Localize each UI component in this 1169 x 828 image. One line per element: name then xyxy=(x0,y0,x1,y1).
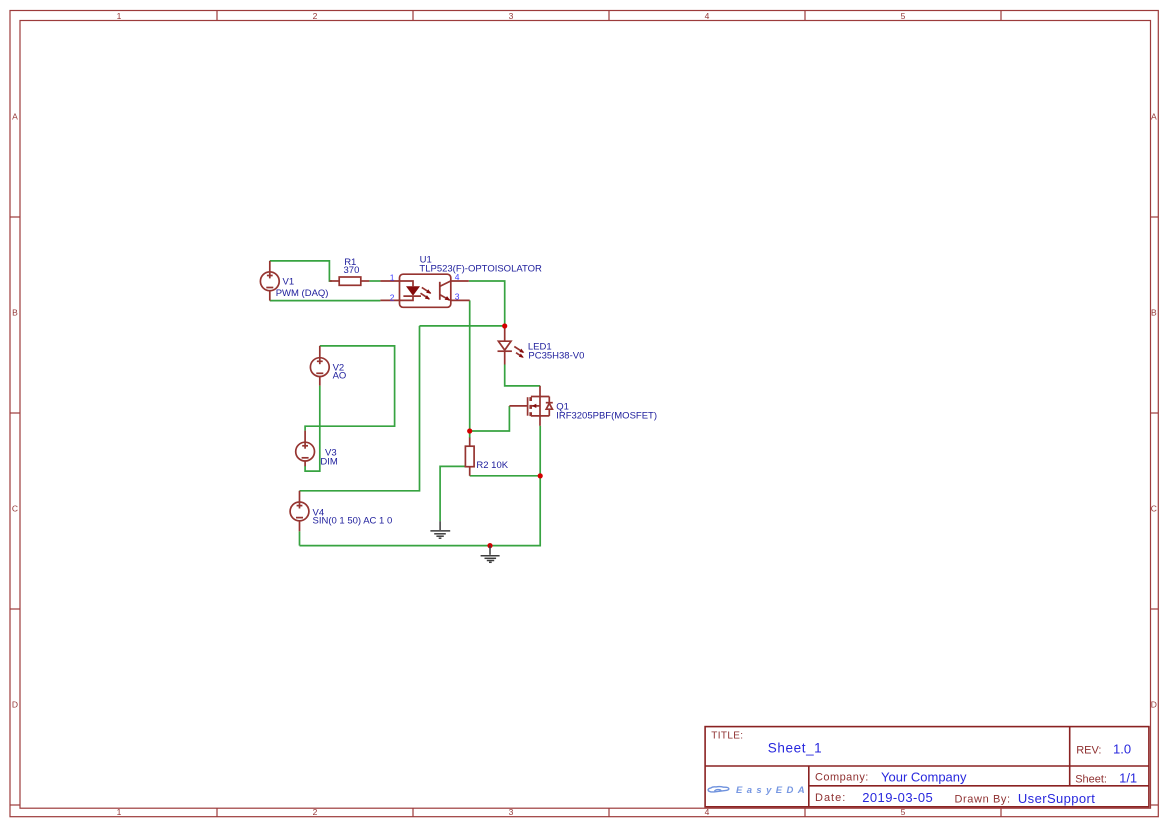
svg-text:2: 2 xyxy=(313,11,318,21)
svg-text:4: 4 xyxy=(455,272,460,282)
svg-text:2019-03-05: 2019-03-05 xyxy=(862,790,933,805)
svg-text:5: 5 xyxy=(901,11,906,21)
svg-text:AO: AO xyxy=(333,371,347,382)
svg-text:UserSupport: UserSupport xyxy=(1018,791,1095,806)
svg-text:Sheet_1: Sheet_1 xyxy=(768,740,823,755)
svg-text:SIN(0 1 50) AC 1 0: SIN(0 1 50) AC 1 0 xyxy=(313,516,393,527)
svg-text:3: 3 xyxy=(509,11,514,21)
svg-text:3: 3 xyxy=(455,292,460,302)
svg-text:Sheet:: Sheet: xyxy=(1075,773,1107,785)
svg-text:1/1: 1/1 xyxy=(1119,770,1137,785)
svg-text:4: 4 xyxy=(705,11,710,21)
svg-text:TITLE:: TITLE: xyxy=(711,730,743,741)
svg-text:C: C xyxy=(12,504,18,514)
svg-text:IRF3205PBF(MOSFET): IRF3205PBF(MOSFET) xyxy=(556,411,657,422)
svg-text:EasyEDA: EasyEDA xyxy=(736,785,809,796)
svg-text:A: A xyxy=(12,112,18,122)
svg-text:Your Company: Your Company xyxy=(881,769,967,784)
svg-text:B: B xyxy=(12,308,18,318)
svg-text:Drawn By:: Drawn By: xyxy=(955,794,1011,806)
svg-text:1: 1 xyxy=(117,807,122,817)
svg-text:PWM (DAQ): PWM (DAQ) xyxy=(276,288,329,299)
svg-text:3: 3 xyxy=(509,807,514,817)
svg-text:2: 2 xyxy=(313,807,318,817)
svg-text:V1: V1 xyxy=(283,277,295,288)
svg-text:DIM: DIM xyxy=(320,457,338,468)
svg-text:1.0: 1.0 xyxy=(1113,742,1131,757)
svg-text:370: 370 xyxy=(344,265,360,276)
svg-text:Date:: Date: xyxy=(815,792,846,804)
svg-text:D: D xyxy=(1151,700,1157,710)
svg-text:TLP523(F)-OPTOISOLATOR: TLP523(F)-OPTOISOLATOR xyxy=(419,263,542,274)
svg-text:PC35H38-V0: PC35H38-V0 xyxy=(528,350,584,361)
svg-text:4: 4 xyxy=(705,807,710,817)
svg-text:B: B xyxy=(1151,308,1157,318)
svg-text:REV:: REV: xyxy=(1076,745,1101,757)
svg-text:1: 1 xyxy=(117,11,122,21)
svg-text:Company:: Company: xyxy=(815,772,869,784)
svg-text:C: C xyxy=(1151,504,1157,514)
svg-text:A: A xyxy=(1151,112,1157,122)
svg-text:2: 2 xyxy=(390,292,395,302)
svg-text:D: D xyxy=(12,700,18,710)
svg-text:1: 1 xyxy=(390,273,395,283)
svg-text:R2 10K: R2 10K xyxy=(476,460,508,471)
svg-text:5: 5 xyxy=(901,807,906,817)
